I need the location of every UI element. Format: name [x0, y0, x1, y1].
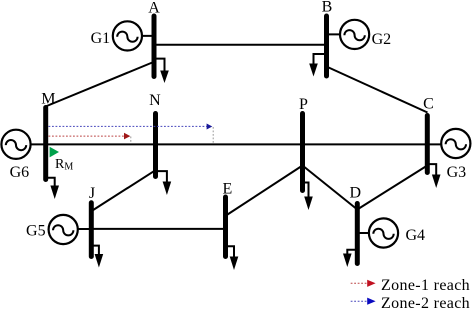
svg-text:E: E [223, 181, 233, 198]
bus J [89, 203, 94, 257]
generator G5 [49, 215, 78, 244]
wire bus C to bus D [357, 166, 426, 210]
zone-2 reach end tick (dashed vertical) [212, 127, 214, 144]
load arrow at bus B [309, 54, 326, 77]
svg-text:G6: G6 [10, 164, 30, 181]
bus B [324, 16, 329, 76]
svg-text:G1: G1 [91, 30, 111, 47]
zone-2 reach dashed arrow (blue) [49, 124, 213, 130]
bus E [223, 197, 228, 257]
wire bus P to bus D [303, 166, 358, 210]
svg-text:G2: G2 [372, 31, 392, 48]
load arrow at bus E [226, 246, 239, 270]
wire G1 to bus A [127, 35, 154, 37]
svg-text:M: M [41, 90, 55, 107]
generator G6 [1, 130, 30, 159]
wire bus E to bus P [228, 166, 303, 215]
bus M [43, 108, 48, 180]
main wire G6-M-N-P-C-G3 [16, 143, 456, 145]
generator G3 [441, 129, 470, 158]
wire bus N to bus J [92, 170, 156, 211]
wire G5 to bus J [63, 228, 91, 230]
legend zone-2 arrow [351, 298, 376, 305]
wire bus B to bus C [328, 67, 428, 113]
svg-text:Zone-1 reach: Zone-1 reach [381, 277, 470, 294]
legend zone-1 arrow [351, 280, 376, 287]
bus A [152, 16, 157, 77]
svg-text:C: C [423, 96, 434, 113]
generator G4 [369, 218, 398, 247]
load arrow at bus C [428, 164, 441, 188]
load arrow at bus M [46, 178, 59, 199]
load arrow at bus A [154, 59, 169, 83]
svg-text:B: B [322, 0, 333, 16]
zone-1 reach dashed arrow (red) [49, 133, 131, 140]
svg-text:P: P [299, 96, 308, 113]
load arrow at bus P [303, 183, 313, 211]
bus N [153, 114, 158, 177]
load arrow at bus N [156, 171, 172, 195]
svg-text:Zone-2 reach: Zone-2 reach [381, 295, 470, 309]
svg-text:A: A [148, 0, 160, 17]
wire bus J to bus E [91, 228, 225, 230]
svg-text:G5: G5 [26, 223, 46, 240]
svg-text:G3: G3 [447, 164, 467, 181]
svg-text:D: D [350, 185, 362, 202]
wire bus B to G2 [327, 33, 355, 35]
zone-1 reach end tick (dashed vertical) [130, 137, 132, 144]
svg-text:G4: G4 [406, 227, 426, 244]
generator G1 [113, 21, 142, 50]
svg-text:N: N [149, 92, 161, 109]
relay RM green triangle [50, 147, 59, 158]
load arrow at bus D [343, 250, 357, 267]
bus P [300, 114, 305, 191]
svg-text:J: J [89, 185, 95, 202]
wire bus A to bus B [154, 44, 327, 46]
bus C [425, 116, 430, 173]
wire bus A to bus M [46, 62, 154, 107]
generator G2 [340, 20, 369, 49]
wire bus D to G4 [357, 232, 383, 234]
load arrow at bus J [91, 246, 103, 268]
bus D [355, 204, 360, 264]
